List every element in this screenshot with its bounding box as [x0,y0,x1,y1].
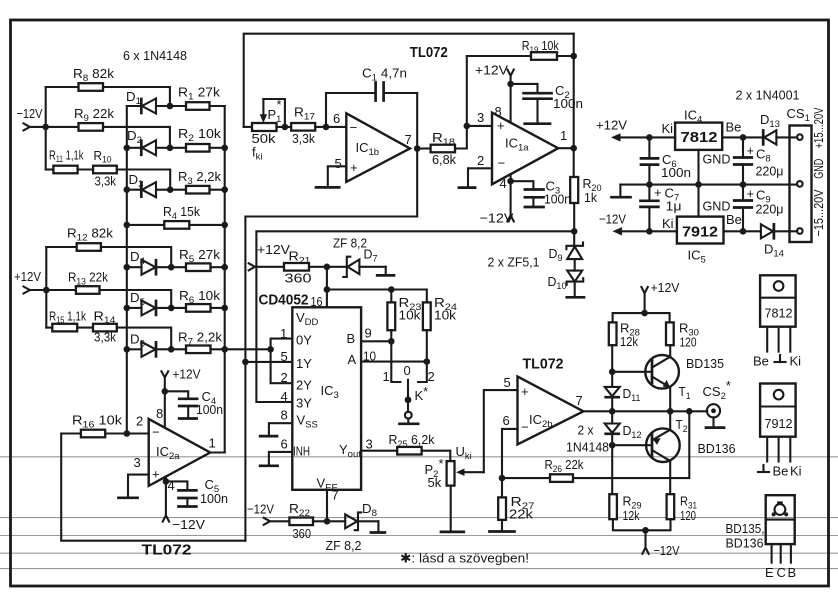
svg-text:2 x: 2 x [578,423,594,438]
-12V arrow below IC2a [163,515,169,521]
svg-text:+: + [747,143,755,158]
wire R9 row left [46,126,79,128]
-12V arrow below IC1a [507,215,513,221]
wire R20 bottom to rail [573,203,575,231]
+12V arrow above IC1a [507,70,513,123]
node pin8/C4 junction [162,388,169,395]
switch K pole [405,380,412,424]
wire 1Y row to CD4052 pin 5 [245,361,292,363]
node R4 left on bus [124,222,131,229]
resistor R18 [431,145,455,153]
svg-text:360: 360 [285,271,312,286]
svg-text:B: B [788,565,797,580]
resistor R5 [186,263,211,271]
svg-text:4: 4 [281,389,288,404]
node output/emitter junction [667,408,674,415]
ground PSU mid rail [612,185,631,198]
node GND legs junction [695,181,702,188]
svg-text:BD135: BD135 [686,356,724,371]
node VDD/pullup rail junction [324,286,331,293]
wire T1 collector to R30 [669,345,671,357]
svg-text:+: + [521,384,529,399]
wire branch to pin 1 0Y [271,339,293,350]
diode D12 [605,411,620,494]
svg-text:8: 8 [281,408,288,423]
wire IC2b output row [583,410,707,412]
wire P1 left lead [244,126,252,128]
wire R9 to D2 node [103,127,170,148]
wire R26 to output node [573,411,689,478]
wire IC2a output to right bus [210,451,225,453]
wire IC1a output bus vertical [573,34,575,177]
svg-text:GND: GND [811,159,826,179]
diode D5 [127,300,171,315]
svg-text:−12V: −12V [172,517,205,532]
svg-text:6 x 1N4148: 6 x 1N4148 [123,48,187,63]
zener D10 [567,259,584,297]
capacitor C8 [734,137,752,184]
svg-text:10k: 10k [399,308,422,323]
wire R23 bottom to contact 1 [391,330,400,382]
wire T1 base [612,371,652,373]
svg-text:7812: 7812 [681,129,718,146]
svg-text:C: C [777,565,786,580]
wire T1 emitter to output row [669,387,671,411]
svg-text:Be: Be [726,212,742,227]
node C8 top junction [740,134,747,141]
node C7 bottom junction [646,228,653,235]
package drawing 7812 [760,275,796,351]
wire R19 row left [467,55,531,57]
wire P2 bottom to ground [450,486,452,532]
svg-text:5: 5 [504,375,511,390]
wire R13 to D5 node [100,290,172,308]
node R21/D7/VDD junction [324,264,331,271]
+12V input arrow [24,287,30,294]
svg-text:3,3k: 3,3k [292,131,315,146]
svg-text:220μ: 220μ [756,164,784,179]
node +12V rail junction [641,310,648,317]
op-amp IC2a triangle [149,419,211,486]
svg-text:BD135,: BD135, [726,521,765,536]
resistor R30 (vertical) [666,322,674,345]
wire R7 row to CD4052 inputs [225,348,271,350]
svg-text:+: + [747,186,755,201]
svg-text:+12V: +12V [173,367,201,382]
-12V PSU arrow [613,227,623,235]
wire R2 to right bus [210,147,225,149]
wire pin2 row [105,432,149,434]
wire pull-up rail to R23 R24 [327,290,427,303]
svg-text:ZF 8,2: ZF 8,2 [326,538,362,553]
svg-text:A: A [348,352,357,367]
svg-text:6: 6 [503,413,510,428]
ground pin symbol (7812 pkg) [775,355,786,362]
wire D4 node to R5 [171,266,186,268]
svg-text:R15 1,1k: R15 1,1k [49,309,86,327]
resistor R9 [79,123,104,131]
wire C1 feedback left [326,93,374,127]
wire VDD vertical [326,267,328,308]
svg-text:−12V: −12V [654,543,680,558]
svg-text:360: 360 [293,526,312,541]
wire T2 collector to R31 [669,461,671,494]
ruled paper line 4 [0,552,838,554]
svg-text:6: 6 [281,437,288,452]
ruled paper line 5 [0,568,838,570]
svg-text:7912: 7912 [682,224,718,241]
svg-text:22k: 22k [509,507,534,522]
wire R21 to D7 node [309,266,346,268]
svg-text:+: + [497,118,505,133]
svg-text:0: 0 [404,363,411,378]
node D1-R1 junction [167,103,174,110]
svg-text:+: + [350,160,358,175]
node D3-R3 junction [167,186,174,193]
svg-text:BD136: BD136 [698,441,736,456]
svg-text:+12V: +12V [14,269,41,284]
svg-text:100n: 100n [544,192,571,207]
op-amp IC1b triangle [346,113,410,182]
ground IC2a pin3 [119,496,138,499]
wire 7912 GND leg [697,185,699,217]
wire R6 to right bus [211,307,225,309]
svg-text:7: 7 [332,488,339,503]
node R23 top junction [388,286,395,293]
svg-text:6: 6 [333,111,340,126]
node D5-R6 junction [168,305,175,312]
ruled paper line 1 [0,456,838,458]
svg-text:3,3k: 3,3k [95,174,117,189]
capacitor C1 [376,83,384,101]
svg-text:100n: 100n [200,491,228,506]
+12V PSU arrow [611,133,621,141]
resistor R19 [531,52,557,60]
ground pin symbol (7912 pkg) [758,465,769,472]
svg-text:GND: GND [703,152,731,167]
svg-text:3,3k: 3,3k [94,330,116,345]
svg-text:7812: 7812 [765,306,793,321]
node output/R26 junction [686,408,693,415]
transistor T2 BD136 [646,428,680,462]
package drawing 7912 [760,384,796,462]
svg-text:+12V: +12V [257,242,290,257]
wire R22 to D8 [313,520,345,522]
resistor R27 (vertical) [498,497,506,520]
resistor R15 [52,324,77,332]
svg-text:Be: Be [753,354,769,369]
R22 input arrow [264,518,270,525]
ground D10 [567,296,584,299]
wire pin10 A row [361,361,427,363]
svg-text:R11 1,1k: R11 1,1k [49,148,84,166]
svg-text:3Y: 3Y [296,396,312,411]
-12V arrow output stage [642,548,648,554]
ground D7 [377,267,394,276]
wire R5 to right bus [211,266,225,268]
node D2 left on bus [124,145,131,152]
node pin8/C2 junction [507,81,514,88]
potentiometer P1 [252,123,277,131]
wire +12V vertical bus [45,247,47,328]
node -12V rail junction [642,527,649,534]
resistor R23 (vertical) [387,302,395,330]
node D5 left on bus [124,305,131,312]
wire R1 to right bus [210,105,225,107]
wire pin9 B row [361,340,391,342]
svg-text:1μ: 1μ [666,199,682,214]
node output/diode chain junction [609,408,616,415]
wire -12V vertical bus [45,87,47,170]
svg-text:8: 8 [156,406,163,421]
wire D6 node to R7 [171,348,186,350]
wire top feedback rail from IC1a output to P1 [244,34,574,127]
svg-text:−: − [152,425,160,440]
voltage regulator IC5 7912 [677,217,724,244]
svg-text:2: 2 [136,414,143,429]
svg-text:+: + [152,467,160,482]
terminal CS1 GND [797,181,803,187]
svg-text:120: 120 [680,335,697,350]
svg-text:1: 1 [560,128,567,143]
node R6 right bus junction [221,305,228,312]
svg-text:3: 3 [366,437,373,452]
wire IC1b output to R18 [417,147,430,149]
wire D1 node to R1 [170,105,186,107]
svg-text:1Y: 1Y [296,356,312,371]
ground R27 [490,530,515,533]
ground C5 [179,505,197,508]
svg-text:12k: 12k [623,508,640,523]
package drawing BD135/BD136 [766,495,795,562]
wire bus to R4 [127,224,165,226]
svg-text:Be: Be [773,464,789,479]
resistor R22 [289,518,313,526]
svg-text:3: 3 [134,455,141,470]
wire GND mid rail [620,184,797,186]
svg-text:−12V: −12V [599,212,626,227]
wire R15 to R14 [77,327,93,329]
capacitor C5 [166,481,196,506]
svg-text:*: * [277,97,282,112]
wire R19 to output bus [557,55,574,57]
node T2 base junction [609,442,616,449]
resistor R2 [186,144,210,152]
resistor R12 [77,243,101,251]
svg-text:10k: 10k [434,308,457,323]
svg-text:2 x ZF5,1: 2 x ZF5,1 [488,255,540,270]
ground VSS [260,435,277,438]
svg-text:0Y: 0Y [296,333,312,348]
wire D3 node to R3 [170,189,186,191]
resistor R26 [550,474,573,482]
wire pin6 node to R26 [502,477,550,479]
svg-text:1k: 1k [584,190,597,205]
diode D14 [761,224,797,238]
P2 wiper arrow to IC2b pin5 [456,469,484,476]
node -12V bus junction [42,124,49,131]
capacitor C2 [511,84,552,124]
svg-text:1: 1 [280,326,287,341]
resistor R28 (vertical) [609,322,617,345]
wire IC1a output to bus [558,147,574,149]
svg-text:−12V: −12V [480,211,514,226]
svg-text:2: 2 [428,369,435,384]
wire R27 bottom to ground [501,520,503,531]
zener D7 [343,257,385,277]
wire 7812 output to CS1 [722,136,762,138]
node C8/C9 mid junction [740,181,747,188]
wire pin3 to ground [128,475,149,498]
svg-text:TL072: TL072 [523,356,564,373]
wire T2 emitter to output row [669,411,671,429]
svg-text:Ki: Ki [790,464,802,479]
node D4-R5 junction [168,264,175,271]
node R4 right bus junction [221,222,228,229]
zener D8 [345,512,378,530]
wire arrow to R21 [255,266,284,268]
svg-text:1: 1 [383,369,390,384]
svg-text:−12V: −12V [247,502,274,517]
P1 wiper arrow [260,99,267,123]
svg-text:+12V: +12V [651,280,680,295]
resistor R1 [186,102,210,110]
node IC1a output junction [570,145,577,152]
wire 7812 GND leg [697,150,699,185]
svg-text:−15...20V: −15...20V [811,189,826,236]
wire -12V input to bus [30,126,46,128]
IC CD4052 box IC3 [292,307,361,490]
wire R3 to right bus [210,189,225,191]
node pin4/C3 junction [507,178,514,185]
node IC1b output junction [414,145,421,152]
svg-text:E: E [765,565,774,580]
wire pin4 to -12V [165,477,167,516]
ground IC1a pin2 [459,186,475,189]
ground C4 [179,417,196,420]
svg-text:100n: 100n [661,165,691,180]
op-amp IC1a triangle [492,113,558,185]
wire pin3 row [467,125,492,127]
svg-text:220μ: 220μ [756,202,784,217]
svg-text:3: 3 [477,110,484,125]
diode D13 [763,130,797,144]
+12V arrow above IC2a [161,371,168,427]
svg-text:−: − [350,120,358,135]
wire +12V input to bus [30,289,47,291]
wire R27 leads [501,478,503,497]
node VEE/R22/D8 junction [324,518,331,525]
wire -12V rail to 7912 [620,230,677,232]
svg-text:Ki: Ki [662,121,674,136]
svg-text:4: 4 [500,176,507,191]
diode D4 [127,260,171,275]
resistor R3 [186,186,210,194]
svg-text:2Y: 2Y [296,378,312,393]
svg-text:ZF 8,2: ZF 8,2 [333,236,367,251]
wire left ladder bus [126,106,128,434]
resistor R21 [284,263,309,271]
node D3 left on bus [124,186,131,193]
wire Yout row to R25 [361,450,397,452]
R21 input arrow [249,263,255,270]
node 0Y/2Y branch junction [267,346,274,353]
resistor R24 (vertical) [423,302,431,330]
diode D2 [127,140,170,155]
svg-text:1N4148: 1N4148 [566,440,609,455]
svg-text:100n: 100n [553,96,583,111]
ground C3 [525,206,544,209]
wire R17 to pin6 node [315,126,346,128]
terminal CS1 -15..20V [797,228,803,234]
svg-text:✱: lásd a szövegben!: ✱: lásd a szövegben! [400,551,529,566]
svg-text:+12V: +12V [596,118,627,133]
node P1-R17 junction [282,124,289,131]
wire INH pin to ground [269,452,292,466]
wire right ladder bus [224,106,226,453]
ground IC1b pin5 [316,186,339,189]
node pin4/C5 junction [163,478,170,485]
wire pin2 to ground [468,168,492,187]
svg-text:TL072: TL072 [142,542,192,559]
wire R28 bottom to diode chain [611,345,613,387]
-12V input arrow [24,123,30,130]
wire R16 left to feedback bottom [61,434,245,541]
wire T2 base [612,444,652,446]
svg-text:7: 7 [405,132,412,147]
wire R18 to pin3 node [455,56,467,149]
ruled paper line 3 [0,535,838,537]
svg-text:7912: 7912 [765,416,793,431]
capacitor C9 [734,185,752,232]
node C6 top junction [646,134,653,141]
node D2-R2 junction [167,145,174,152]
node rail/zener junction [571,228,578,235]
resistor R20 (vertical) [570,177,578,203]
capacitor C3 [511,181,544,207]
resistor R25 [397,447,421,455]
wire VEE to R22 rail [326,490,328,522]
resistor R6 [186,304,211,312]
wire branch to pin 2 2Y [271,349,293,383]
wire C1 feedback right [385,93,417,149]
node D6-R7 junction [168,346,175,353]
wire R8 row left [46,86,79,88]
wire R10 to D3 node [117,170,170,190]
wire +12V rail to 7812 [618,136,675,138]
node R7 right bus junction [221,346,228,353]
connector CS2 [706,404,724,427]
svg-text:+12V: +12V [475,63,508,78]
svg-text:−: − [498,156,506,171]
svg-text:TL072: TL072 [410,44,448,61]
potentiometer P2 (vertical) [447,461,455,486]
resistor R8 [79,83,104,91]
svg-text:BD136: BD136 [726,536,764,551]
wire R23 top lead [390,290,392,303]
node R3 right bus junction [221,186,228,193]
wire -12V stem [644,530,646,547]
wire +12V rail to R28 R30 [613,313,670,322]
resistor R29 (vertical) [609,494,617,519]
wire pin5 from P2 wiper [484,390,518,472]
resistor R10 [93,166,117,174]
node C9 bottom junction [740,228,747,235]
node T1 base junction [609,369,616,376]
svg-text:100n: 100n [196,402,223,417]
diode D1 [127,99,170,114]
svg-text:Ki: Ki [790,354,802,369]
